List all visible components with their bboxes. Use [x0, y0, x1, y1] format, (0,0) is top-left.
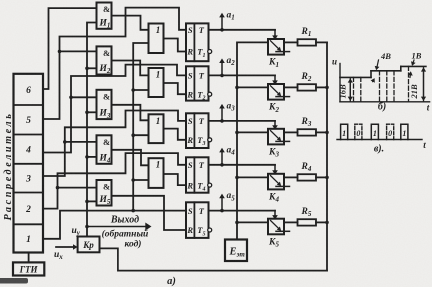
svg-text:5: 5	[26, 116, 31, 126]
switch К4 box	[268, 174, 284, 190]
distributor cell label 6	[26, 86, 31, 96]
clock generator ГТИ box	[13, 262, 44, 275]
label R of T1	[186, 47, 193, 57]
wire cell5 riser	[43, 8, 186, 119]
svg-text:S: S	[188, 206, 193, 216]
svg-text:1: 1	[156, 70, 161, 80]
label & of И2	[103, 48, 110, 58]
wire OR4 to R of T4	[164, 174, 187, 185]
label a1	[227, 10, 235, 21]
label S of T4	[188, 160, 193, 170]
wire E bus to К2	[237, 86, 268, 88]
wire R1 to summing bus	[316, 41, 327, 43]
waveform в) label t	[423, 140, 426, 150]
label S of T1	[188, 25, 193, 35]
svg-text:S: S	[188, 25, 193, 35]
svg-text:T: T	[199, 160, 205, 170]
svg-text:ГТИ: ГТИ	[19, 264, 39, 274]
distributor cell label 2	[25, 205, 31, 215]
wire T1 output to К1	[209, 29, 276, 31]
wire К2 to R2	[284, 86, 298, 88]
AND gate И2 box	[97, 46, 112, 74]
svg-text:2: 2	[25, 205, 31, 215]
comparator Кр box	[78, 237, 100, 253]
svg-text:R: R	[186, 225, 193, 235]
inverted output circle of T5	[208, 228, 212, 232]
junction R2 on summing bus	[325, 86, 329, 90]
svg-text:Выход: Выход	[110, 215, 139, 226]
inverted output circle of T4	[208, 183, 212, 187]
svg-text:&: &	[103, 137, 110, 147]
waveform в) pulse 0 label #1	[356, 129, 360, 138]
switch К5 box	[268, 219, 284, 235]
wire T4 output to К4	[209, 164, 276, 166]
dimension 1В arrows	[408, 60, 416, 78]
svg-text:4: 4	[25, 146, 31, 156]
distributor cell divider 3	[14, 163, 44, 165]
wire T5 output to К5	[209, 210, 276, 212]
flip-flop T4 divider	[193, 157, 195, 192]
control arrow into К4	[272, 165, 278, 175]
svg-text:1: 1	[156, 160, 161, 170]
wire OR3 to R of T3	[164, 129, 187, 140]
label T of T4	[199, 160, 205, 170]
control arrow into К1	[272, 30, 278, 40]
distributor cell divider 2	[14, 134, 44, 136]
waveform в) pulse 0 #1	[355, 124, 362, 139]
label a2	[227, 56, 236, 67]
svg-text:T: T	[199, 116, 205, 126]
wire R5 to summing bus	[316, 221, 327, 223]
wire branch to И5 top	[58, 187, 97, 189]
switch К2 box	[268, 84, 284, 100]
label & of И1	[103, 4, 110, 14]
svg-text:б): б)	[378, 102, 386, 113]
svg-text:6: 6	[26, 86, 31, 96]
AND gate И1 box	[97, 3, 112, 29]
waveform в) pulse 1 label #1	[342, 129, 346, 138]
OR gate 4 box	[149, 158, 164, 188]
distributor cell label 5	[26, 116, 31, 126]
distributor cell label 3	[25, 175, 31, 185]
wire R4 to summing bus	[316, 176, 327, 178]
waveform б) step level 1	[340, 76, 371, 78]
node a5 arrow	[219, 194, 225, 211]
switch К5 contact stub	[276, 230, 290, 232]
junction R5 on summing bus	[325, 221, 329, 225]
waveform б) dashed divider 4	[386, 71, 388, 102]
resistor R1 box	[298, 39, 317, 45]
control arrow into К3	[272, 121, 278, 130]
waveform б) dashed divider 1	[353, 77, 355, 101]
reference source E_эт box	[225, 240, 247, 262]
switch К2 contact stub	[276, 96, 290, 98]
junction u_y to И2	[85, 67, 89, 71]
wire E bus to К4	[237, 176, 268, 178]
label R of T5	[186, 225, 193, 235]
resistor R4 box	[298, 174, 317, 180]
wire branch to И3 top	[71, 96, 97, 98]
label E_эт	[229, 247, 246, 259]
label u_x	[54, 250, 63, 261]
dimension 4В arrows	[371, 60, 380, 83]
label 1 of OR gate 2	[156, 70, 161, 80]
svg-text:Распределитель: Распределитель	[3, 111, 14, 220]
waveform б) step rise 2	[400, 66, 402, 70]
waveform в) pulse 1 label #2	[373, 129, 377, 138]
junction E bus row 4	[235, 176, 239, 180]
switch К1 box	[268, 39, 284, 55]
switch К3 box	[268, 129, 284, 145]
label И4	[99, 153, 111, 164]
label И5	[99, 195, 111, 206]
label Выход	[110, 215, 139, 226]
wire cell1 to S of T5	[43, 211, 186, 239]
label 1 of OR gate 1	[156, 25, 161, 35]
resistor R2 box	[298, 84, 317, 90]
svg-text:&: &	[103, 182, 110, 192]
wire К3 to R3	[284, 131, 298, 133]
svg-text:&: &	[103, 91, 110, 101]
node a5 junction	[220, 209, 224, 213]
wire reset bus to OR4	[133, 179, 148, 181]
waveform в) pulse 0 label #2	[388, 129, 392, 138]
wire R2 to summing bus	[316, 86, 327, 88]
switch К4 contact stub	[276, 185, 290, 187]
label (обратный	[102, 229, 149, 240]
control arrow into К5	[272, 211, 278, 220]
wire T2 output to К2	[209, 74, 276, 76]
svg-text:1: 1	[26, 235, 31, 245]
waveform б) dashed divider 6	[408, 66, 410, 101]
AND gate И5 box	[97, 180, 112, 206]
switch К3 contact arm	[271, 131, 282, 141]
wire reset bus to OR3	[133, 134, 148, 136]
dimension 21В arrow	[421, 67, 426, 101]
junction reset bus row 3	[131, 133, 135, 137]
label T3 inverted output	[197, 135, 205, 147]
label 21В (rotated)	[409, 84, 419, 100]
label И2	[99, 64, 111, 75]
wire u_y branch to И3	[87, 111, 97, 113]
junction E bus row 2	[235, 86, 239, 90]
distributor cell label 1	[26, 235, 31, 245]
svg-text:R: R	[186, 135, 193, 145]
distributor cell divider 4	[14, 192, 44, 194]
wire cell6 to И1	[43, 8, 97, 89]
wire И3 to OR3	[112, 105, 149, 121]
waveform б) label t	[427, 103, 430, 113]
label 1 of OR gate 4	[156, 160, 161, 170]
label T2 inverted output	[197, 89, 205, 101]
waveform б) u axis	[339, 64, 341, 102]
svg-text:Кр: Кр	[82, 240, 94, 250]
label R of T3	[186, 135, 193, 145]
waveform в) baseline	[337, 139, 422, 141]
svg-text:1: 1	[373, 129, 377, 138]
node a3 junction	[220, 119, 224, 123]
label Кр	[82, 240, 94, 250]
waveform в) pulse 1 #1	[341, 124, 348, 139]
input u_x arrow	[56, 244, 78, 250]
svg-text:1: 1	[156, 116, 161, 126]
waveform б) step level 3	[401, 65, 426, 67]
junction reset bus row 2	[131, 88, 135, 92]
node a4 junction	[220, 163, 224, 167]
label 4В	[380, 51, 391, 61]
resistor R3 box	[298, 129, 317, 135]
waveform б) step level 2	[371, 70, 401, 72]
wire И1 to OR1	[112, 16, 149, 30]
E_эт supply bus	[237, 42, 268, 239]
node a3 arrow	[219, 104, 225, 121]
label 1 of OR gate 3	[156, 116, 161, 126]
OR gate 2 box	[149, 68, 164, 97]
junction E bus row 3	[235, 131, 239, 135]
waveform в) pulse 1 #2	[371, 124, 378, 139]
wire cell3 riser	[43, 111, 186, 177]
label S of T5	[188, 206, 193, 216]
wire E bus to К5	[237, 221, 268, 223]
junction u_y to И4	[85, 155, 89, 159]
label а)	[167, 276, 176, 287]
label R2	[301, 72, 312, 83]
inverted output circle of T2	[208, 92, 212, 96]
label К4	[268, 192, 279, 203]
junction cell3 to И4	[63, 140, 67, 144]
switch К2 contact arm	[271, 86, 282, 96]
label T of T1	[199, 25, 205, 35]
svg-text:в).: в).	[374, 144, 384, 155]
flip-flop T3 box	[186, 113, 209, 148]
flip-flop T2 divider	[193, 66, 195, 100]
svg-text:1: 1	[342, 129, 346, 138]
label б)	[378, 102, 386, 113]
waveform б) label u	[332, 57, 337, 67]
label код)	[125, 239, 142, 250]
wire T3 output to К3	[209, 120, 276, 122]
wire reset bus to OR2	[133, 89, 148, 91]
label T of T5	[199, 206, 205, 216]
label К3	[268, 147, 279, 158]
svg-text:1В: 1В	[412, 51, 422, 61]
switch К4 contact arm	[271, 176, 282, 186]
wire cell4 riser	[43, 65, 186, 153]
label & of И3	[103, 91, 110, 101]
junction cell2 to И5	[56, 186, 60, 190]
svg-text:u: u	[332, 57, 337, 67]
reset bus to OR gates	[133, 43, 148, 211]
label a4	[227, 145, 236, 156]
label К5	[268, 237, 279, 248]
wire К5 to R5	[284, 221, 298, 223]
distributor cell label 4	[25, 146, 31, 156]
waveform в) pulse 0 #2	[387, 124, 394, 139]
svg-text:4В: 4В	[380, 51, 391, 61]
svg-text:код): код)	[125, 239, 142, 250]
label T4 inverted output	[197, 180, 205, 192]
svg-text:1: 1	[156, 25, 161, 35]
node a2 junction	[220, 74, 224, 78]
node a2 arrow	[219, 58, 225, 75]
inverted output circle of T1	[208, 50, 212, 54]
wire И2 to OR2	[112, 61, 149, 76]
dimension 16В arrow	[348, 78, 353, 101]
label К2	[268, 103, 279, 114]
label T5 inverted output	[197, 225, 205, 237]
label R of T4	[186, 180, 193, 190]
label T1 inverted output	[197, 47, 205, 59]
wire branch to И4 top	[65, 141, 96, 143]
distributor cell divider 1	[14, 104, 44, 106]
wire И5 to R of T5	[112, 196, 187, 230]
switch К1 contact arm	[271, 41, 282, 51]
label S of T3	[188, 116, 193, 126]
label a5	[227, 191, 236, 202]
waveform б) dashed divider 3	[379, 71, 381, 102]
switch К3 contact stub	[276, 140, 290, 142]
waveform б) dashed divider 5	[393, 71, 395, 102]
label 1В	[412, 51, 422, 61]
svg-text:R: R	[186, 180, 193, 190]
switch К1 contact stub	[276, 51, 290, 53]
wire E bus to К3	[237, 131, 268, 133]
waveform б) step rise 1	[370, 71, 372, 78]
distributor box (Распределитель)	[14, 74, 44, 253]
label Распределитель (rotated)	[3, 111, 14, 220]
label a3	[227, 101, 236, 112]
waveform б) dashed divider 2	[360, 77, 362, 101]
label R5	[301, 207, 312, 218]
svg-text:S: S	[188, 116, 193, 126]
flip-flop T5 divider	[193, 202, 195, 238]
label R3	[301, 117, 312, 128]
wire u_y branch to И4	[87, 156, 97, 158]
svg-text:21В: 21В	[409, 84, 419, 100]
inverted output circle of T3	[208, 138, 212, 142]
svg-text:T: T	[199, 71, 205, 81]
OR gate 1 box	[149, 24, 164, 54]
flip-flop T1 box	[186, 23, 209, 61]
comparator output bus u_y	[87, 23, 97, 237]
label К1	[268, 58, 279, 69]
svg-text:16В: 16В	[338, 84, 348, 99]
waveform б) t axis	[340, 101, 430, 103]
svg-text:S: S	[188, 71, 193, 81]
distributor cell divider 5	[14, 223, 44, 225]
svg-text:а): а)	[167, 276, 176, 287]
feedback wire bottom	[100, 248, 328, 270]
junction cell5 to И2	[58, 50, 62, 54]
junction u_y to И5	[85, 200, 89, 204]
label И1	[99, 18, 111, 29]
label И3	[99, 109, 111, 120]
flip-flop T3 divider	[193, 113, 195, 148]
wire OR1 to R of T1	[164, 39, 187, 52]
label R4	[301, 162, 312, 173]
node a1 junction	[220, 28, 224, 32]
junction R3 on summing bus	[325, 131, 329, 135]
output arrow (Выход)	[87, 223, 152, 231]
label T of T3	[199, 116, 205, 126]
svg-text:&: &	[103, 48, 110, 58]
control arrow into К2	[272, 75, 278, 85]
scan artifact bottom-left	[0, 278, 28, 284]
label u_y	[72, 226, 81, 237]
svg-text:0: 0	[356, 129, 360, 138]
flip-flop T4 box	[186, 157, 209, 192]
wire R3 to summing bus	[316, 131, 327, 133]
AND gate И4 box	[97, 135, 112, 164]
svg-text:T: T	[199, 25, 205, 35]
label S of T2	[188, 71, 193, 81]
junction reset bus row 4	[131, 178, 135, 182]
junction reset bus on cell1 wire	[131, 209, 135, 213]
label & of И4	[103, 137, 110, 147]
junction u_y to И3	[85, 111, 89, 115]
junction cell4 to И3	[69, 96, 73, 100]
label T of T2	[199, 71, 205, 81]
junction E bus row 5	[235, 221, 239, 225]
node a1 arrow	[219, 13, 225, 30]
svg-text:3: 3	[25, 175, 31, 185]
wire u_y branch to И5	[87, 200, 97, 202]
flip-flop T5 box	[186, 202, 209, 238]
label 16В (rotated)	[338, 84, 348, 99]
svg-text:(обратный: (обратный	[102, 229, 149, 240]
label в)	[374, 144, 384, 155]
svg-text:&: &	[103, 4, 110, 14]
junction R4 on summing bus	[325, 176, 329, 180]
svg-text:0: 0	[388, 129, 392, 138]
svg-text:R: R	[186, 47, 193, 57]
wire OR2 to R of T2	[164, 83, 187, 94]
wire cell2 riser	[43, 153, 186, 209]
svg-text:S: S	[188, 160, 193, 170]
wire К1 to R1	[284, 41, 298, 43]
label R1	[301, 27, 312, 38]
svg-text:R: R	[186, 89, 193, 99]
OR gate 3 box	[149, 114, 164, 143]
waveform в) pulse 1 #3	[401, 124, 408, 139]
label R of T2	[186, 89, 193, 99]
flip-flop T1 divider	[193, 23, 195, 61]
svg-text:1: 1	[402, 129, 406, 138]
switch К5 contact arm	[271, 221, 282, 231]
label & of И5	[103, 182, 110, 192]
wire К4 to R4	[284, 176, 298, 178]
wire И4 to OR4	[112, 150, 149, 166]
svg-text:T: T	[199, 206, 205, 216]
label ГТИ	[19, 264, 39, 274]
summing bus (right)	[326, 42, 328, 270]
waveform в) pulse 1 label #3	[402, 129, 406, 138]
wire distributor to ГТИ	[28, 253, 30, 263]
node a4 arrow	[219, 148, 225, 165]
wire branch to И2 top	[60, 50, 97, 52]
junction u_y output tap	[85, 225, 89, 229]
wire u_y branch to И2	[87, 67, 97, 69]
resistor R5 box	[298, 219, 317, 225]
flip-flop T2 box	[186, 66, 209, 100]
AND gate И3 box	[97, 90, 112, 119]
